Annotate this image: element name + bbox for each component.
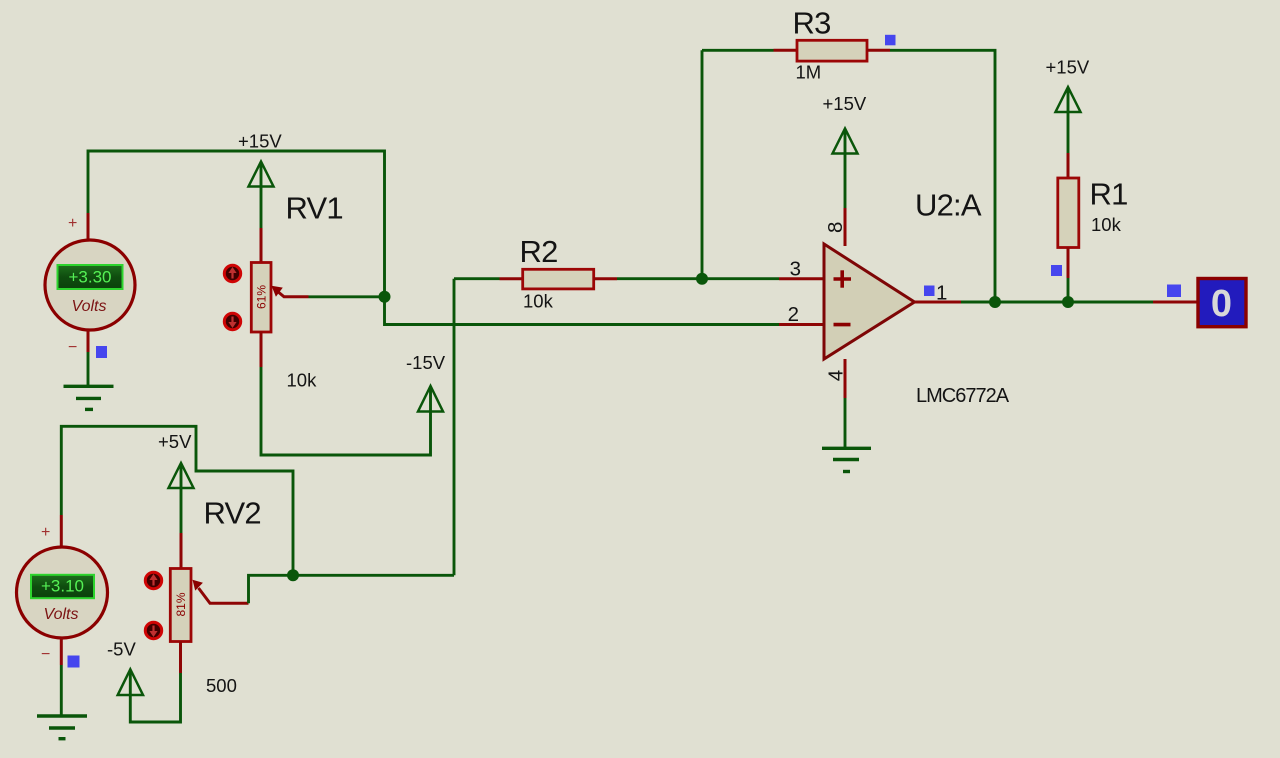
wire junction to pin3 [702,277,779,280]
label 10k (R1) [1091,214,1122,235]
label -5V [107,639,136,660]
op-amp U2 pin 3 lead [779,277,824,280]
svg-text:10k: 10k [1091,214,1122,235]
power -5V (RV2) [118,669,143,695]
svg-text:1M: 1M [796,62,822,83]
wire RV1 bottom to -15V [261,367,431,455]
label R2 [520,234,558,269]
pin number 4 [825,370,848,381]
voltmeter VM1 - pin [87,330,90,352]
resistor R2 right lead [594,277,617,280]
wire VM1 to ground [87,352,90,386]
marker (R1) [1051,265,1062,276]
svg-text:RV1: RV1 [286,191,343,226]
label -15V [406,352,446,373]
wire R2 to junction [617,277,702,280]
svg-text:4: 4 [825,370,848,381]
wire RV2 wiper to junction [249,575,294,603]
ground (U2) [822,448,871,471]
wire pin2 net from wiper junction [385,297,780,325]
marker (VM2) [68,656,80,668]
svg-text:1: 1 [936,281,947,304]
resistor R2 [523,269,594,289]
potentiometer RV1 wiper arrow [272,286,309,297]
svg-text:+15V: +15V [823,93,867,114]
label +15V (U2) [823,93,867,114]
op-amp U2:A [824,244,915,359]
pin number 1 [936,281,947,304]
op-amp U2 output pin 1 lead [915,301,962,304]
label RV2 [204,496,261,531]
svg-text:R3: R3 [793,6,831,41]
wire R3 top left [702,49,774,52]
marker (pin1) [924,286,935,297]
svg-text:R2: R2 [520,234,558,269]
label 1M [796,62,822,83]
power +5V (RV2) [169,463,194,533]
potentiometer RV2 body [170,569,191,642]
svg-text:+3.30: +3.30 [68,268,111,287]
svg-text:10k: 10k [287,370,318,391]
wire R3 top right [890,50,995,302]
wire pin4 to ground [844,398,847,448]
junction RV1 wiper node [379,291,391,303]
voltmeter VM2 plus label [41,524,50,541]
svg-text:−: − [41,646,50,663]
svg-text:RV2: RV2 [204,496,261,531]
svg-text:8: 8 [824,222,847,233]
wire output run [961,301,1153,304]
label +15V (RV1) [238,131,282,152]
wire R1 to output [1067,278,1070,302]
power +15V (U2) [833,129,858,209]
voltmeter VM2 - pin [60,638,63,665]
junction output/R3 node [989,296,1001,308]
svg-text:-5V: -5V [107,639,136,660]
power -15V (RV1) [418,386,443,412]
potentiometer RV2 bottom pin [179,642,182,674]
resistor R3 left lead [774,49,798,52]
svg-text:0: 0 [1211,283,1232,325]
wire VM2 plus rail [61,426,293,575]
potentiometer RV1 bottom pin [260,332,263,368]
label R1 [1090,177,1128,212]
power +15V (R1) [1056,87,1081,153]
resistor R1 [1058,178,1079,248]
op-amp U2 pin 2 lead [779,323,824,326]
resistor R1 bottom lead [1067,248,1070,279]
wire RV2 bottom to -5V [130,670,180,722]
voltmeter VM1 plus label [68,215,77,232]
marker (R3) [885,35,896,46]
logic probe output 0 [1198,279,1246,327]
voltmeter VM1 minus label [68,339,77,356]
svg-text:+: + [41,524,50,541]
wire +15V rail from VM1 to RV1 net [88,151,385,297]
svg-text:+: + [68,215,77,232]
op-amp U2 pin 8 lead [844,208,847,246]
potentiometer RV1 down button [224,313,240,329]
ground (VM1) [64,386,114,409]
resistor R3 [797,40,867,61]
wire VM2 to ground [60,665,63,716]
potentiometer RV2 top pin [180,533,183,569]
voltmeter VM2 minus label [41,646,50,663]
resistor R1 top lead [1067,153,1070,179]
marker (probe) [1167,285,1181,298]
potentiometer RV1 up button [224,265,240,281]
pin number 2 [788,303,799,326]
wire RV1 wiper to junction [309,295,385,298]
label +15V (R1) [1046,57,1090,78]
svg-text:U2:A: U2:A [915,188,982,223]
marker (VM1) [96,346,107,358]
label 10k (RV1) [287,370,318,391]
svg-text:+15V: +15V [238,131,282,152]
svg-text:−: − [68,339,77,356]
svg-text:+3.10: +3.10 [41,577,84,596]
voltmeter VM2 [17,547,108,638]
junction pin3 node [696,273,708,285]
svg-text:3: 3 [790,257,801,280]
svg-text:R1: R1 [1090,177,1128,212]
svg-text:61%: 61% [255,285,269,309]
resistor R3 right lead [867,49,890,52]
svg-text:+15V: +15V [1046,57,1090,78]
label R3 [793,6,831,41]
wire R3 feedback vertical left [701,50,704,278]
wire R2 input vertical [453,279,456,576]
ground (VM2) [37,716,87,739]
potentiometer RV2 up button [145,572,161,588]
svg-text:+5V: +5V [158,431,192,452]
svg-text:-15V: -15V [406,352,446,373]
voltmeter VM1 + pin [87,213,90,241]
label +5V [158,431,192,452]
logic probe lead [1153,301,1198,304]
potentiometer RV2 wiper arrow [193,580,249,604]
svg-text:10k: 10k [523,291,554,312]
pin number 8 [824,222,847,233]
potentiometer RV2 down button [145,622,161,638]
svg-text:81%: 81% [174,592,188,616]
resistor R2 left lead [500,277,524,280]
svg-text:Volts: Volts [72,298,107,315]
label U2:A [915,188,982,223]
label RV1 [286,191,343,226]
potentiometer RV1 top pin [260,228,263,263]
junction output/R1 node [1062,296,1074,308]
voltmeter VM2 + pin [60,515,63,550]
label LMC6772A [916,385,1010,407]
op-amp U2 pin 4 lead [844,359,847,398]
pin number 3 [790,257,801,280]
junction RV2 wiper node [287,569,299,581]
potentiometer RV1 body [251,263,271,333]
label 500 [206,675,237,696]
wire RV2 wiper junction to R2 vertical [293,574,454,577]
power +15V (RV1) [249,162,274,229]
svg-text:2: 2 [788,303,799,326]
svg-text:500: 500 [206,675,237,696]
svg-text:Volts: Volts [44,606,79,623]
label 10k (R2) [523,291,554,312]
svg-text:LMC6772A: LMC6772A [916,385,1010,407]
voltmeter VM1 [45,240,135,330]
wire R2 left [454,277,500,280]
